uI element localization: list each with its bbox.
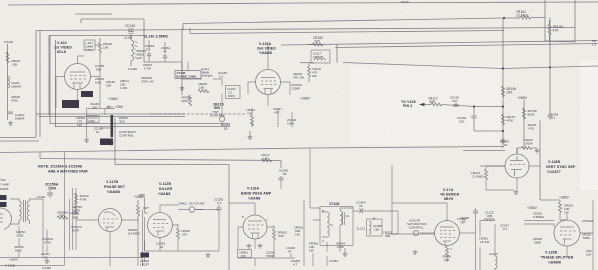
tube V112B	[148, 213, 173, 238]
junction	[502, 67, 504, 69]
wire: mid bus pair y113-116	[36, 114, 185, 117]
tube V117A demod	[435, 221, 460, 252]
wire: bus y44 pair upper	[281, 41, 598, 46]
capacitor 2C254A 2200	[42, 237, 54, 245]
label V-117B PHASE DET	[104, 180, 126, 194]
tube V117B	[99, 209, 122, 232]
label V-104 1st VIDEO 6CL6	[54, 41, 72, 54]
inductor 2L123 vertical	[489, 252, 498, 269]
resistor 2R120 10K	[99, 38, 113, 58]
ground	[8, 121, 13, 126]
resistor 1R306 75K vertical	[74, 203, 77, 214]
paper grain overlay	[0, 0, 1, 1]
resistor 1R303 47K dark	[100, 139, 115, 146]
label V-118B VERT SYNC SEP	[546, 160, 576, 174]
capacitor 1C362 72	[457, 217, 466, 225]
inductor 4L101 180MH	[8, 76, 21, 89]
wire: 1T108 area connections	[304, 148, 398, 266]
resistor 2R305 6800	[15, 245, 24, 253]
resistor 1R117 82K	[428, 97, 503, 107]
ground	[343, 252, 348, 257]
capacitor 2C218 1000	[287, 118, 296, 126]
resistor 2R206A 2700	[141, 76, 154, 84]
resistor 1R304 500	[119, 116, 128, 124]
resistor 2R306 5.6 MEG	[128, 228, 141, 236]
resistor 2R325 550K	[533, 237, 542, 245]
wire: long bus y158	[40, 159, 281, 169]
capacitor 1C255 .01	[156, 242, 165, 250]
capacitor 3C184 330	[90, 102, 99, 110]
wire: top bus line full width	[8, 2, 598, 5]
resistor 3R320 560K	[582, 233, 591, 241]
capacitor 2C262	[286, 246, 295, 254]
label fragment right edge	[592, 39, 597, 47]
wire: vertical x550	[549, 18, 551, 113]
capacitor 1C363	[329, 259, 338, 263]
resistor 1R212 720	[246, 108, 255, 126]
wire: second bus from x183	[183, 18, 504, 24]
inductor 2L121	[357, 217, 383, 236]
capacitor 2C261 50MF	[266, 251, 275, 259]
junction	[473, 105, 475, 107]
capacitor right edge	[473, 208, 478, 216]
wire: vertical x545	[544, 0, 546, 41]
resistor 2R163 15K	[6, 52, 20, 67]
junction	[503, 17, 505, 19]
box killer section	[115, 118, 229, 270]
wire: left bus pair y137-141	[0, 138, 39, 142]
resistor 2R369 100	[442, 246, 451, 262]
capacitor 2C257 .01	[41, 252, 50, 260]
junction	[502, 130, 504, 132]
resistor 2R207 3500	[137, 49, 146, 60]
inductor 2L111 36MH	[201, 67, 212, 77]
wire: killer connections	[145, 197, 220, 251]
resistor 2R302 170	[76, 116, 85, 127]
resistor 1R510 27K	[177, 228, 191, 239]
resistor 2R101 10K 10W	[120, 79, 129, 90]
capacitor 2C150 .047	[450, 96, 459, 107]
tube V115A	[256, 70, 281, 95]
tube V118B vert sync	[505, 154, 529, 178]
wire: tube V104 connections	[56, 45, 100, 108]
inductor L107 box	[84, 40, 95, 52]
capacitor 2C255 0.1	[214, 198, 223, 213]
capacitor 3C194 .01	[500, 138, 509, 147]
resistor 2R169 4700	[11, 95, 20, 103]
inductor 4L105 dark box	[81, 91, 93, 97]
wire: vertical x540 mid	[539, 121, 541, 201]
label V-115B PHASE SPLITTER	[540, 251, 574, 265]
resistor 1R211 560	[517, 138, 539, 154]
wire: vert sync connections	[480, 148, 593, 270]
resistor 1R381	[479, 237, 489, 245]
wire: coil row y62 left stub	[300, 62, 314, 64]
resistor 2R515	[294, 226, 303, 237]
capacitor 2C164 33	[161, 46, 170, 60]
wire: vertical x337	[336, 44, 338, 62]
potentiometer contrast thick bar	[111, 115, 114, 137]
label TO V108 PIN 3 with arrow	[401, 100, 431, 108]
wire: contrast connections	[87, 109, 115, 147]
resistor 1R152 220	[308, 36, 323, 46]
resistor 2R324 10K 1W	[559, 202, 574, 215]
wire: bus y46 pair lower	[335, 44, 598, 48]
resistor 1C211 2.2	[226, 86, 241, 99]
ground	[206, 253, 211, 258]
wire: mid bus pair y123-127	[50, 124, 230, 127]
wire: vertical x50 x55	[50, 36, 56, 127]
wire: short segment above V104 box	[75, 13, 112, 15]
resistor 2R221 47K	[528, 123, 537, 131]
label 2C263	[291, 259, 300, 267]
resistor 1R115 47K 2W	[308, 63, 322, 82]
potentiometer 2R316 1500 AFC BAL	[73, 205, 82, 220]
wire: V115A plate to bus	[248, 45, 290, 106]
tube V115B phase splitter	[554, 220, 580, 246]
wire: vertical drop at 190	[189, 28, 191, 34]
resistor 2R750 820K	[523, 108, 537, 119]
label CONTRAST CONTROL	[119, 130, 136, 138]
ground	[45, 259, 50, 264]
terminal dark boxes left edge	[0, 195, 7, 207]
junction	[549, 66, 551, 68]
wire: demod connections	[392, 165, 476, 270]
tube V104	[65, 64, 91, 90]
resistor 1R501 150	[238, 250, 252, 259]
capacitor 2C327 0.1	[500, 224, 509, 232]
potentiometer 2R401	[178, 202, 205, 213]
tube V116B partial left edge	[0, 208, 11, 229]
capacitor 2C182	[94, 127, 103, 135]
node +265V arrow	[107, 105, 123, 109]
capacitor 2C195 0.1	[547, 112, 558, 120]
terminal cluster bottom left of killer	[140, 241, 149, 267]
transformer 1T108	[320, 202, 353, 246]
capacitor 1C188	[128, 67, 137, 71]
wire: vertical drop at 183	[182, 24, 184, 31]
junction	[502, 105, 504, 107]
inductor 2L140 3.58MC	[144, 35, 169, 39]
capacitor 2C140 3.0	[125, 24, 135, 33]
resistor 1R371 500	[383, 231, 392, 239]
capacitor 2C364 33	[353, 201, 398, 214]
ground	[413, 250, 418, 255]
inductor 2L117 180MH boxed	[311, 50, 330, 63]
resistor 1R161 12 MEG	[504, 10, 545, 19]
note text matched pair	[38, 165, 88, 174]
wire: bandpass connections	[229, 183, 295, 266]
resistor 2R207 2.7M	[143, 63, 152, 71]
box 3.58MC section vertical x144	[144, 29, 182, 96]
capacitor C181A 500MF	[8, 112, 25, 121]
inductor 2L106 dark box	[62, 100, 79, 108]
capacitor 2C213	[221, 123, 230, 131]
resistor 2R116 47K 1W	[293, 72, 304, 80]
wire: bus y33 from 190	[190, 31, 504, 34]
resistor 2R209 2200	[181, 95, 192, 106]
wire: y131 link	[474, 130, 503, 132]
resistor 2R306A 75K	[57, 211, 69, 220]
resistor 2R209 180	[198, 82, 209, 93]
ground at 250	[248, 131, 253, 140]
wire: osc section connections	[149, 40, 292, 127]
capacitor 2C185 820	[95, 64, 104, 72]
inner box V-104	[49, 36, 144, 116]
resistor 2R505 56K	[273, 229, 287, 240]
wire: right box vertical x575	[574, 0, 576, 43]
capacitor 2C169 5.0	[145, 44, 154, 58]
resistor 2R126 10K	[106, 80, 115, 88]
wire: bottom-left verticals	[0, 152, 143, 266]
resistor 1R322 6.8 MEG	[533, 212, 545, 220]
resistor 1R213 2.2 MEG	[471, 166, 518, 195]
capacitor 2C303 1200 boxed	[87, 116, 99, 124]
wire: y150 stub	[463, 150, 505, 152]
resistor 1R342 15K top	[261, 153, 272, 162]
inductor 2L122 .005	[484, 211, 494, 221]
capacitor 2C151A 22MF	[291, 83, 303, 91]
resistor 1R146 22K	[502, 86, 517, 97]
wire: long bus y30	[36, 28, 575, 31]
resistor 2R175 470K	[502, 114, 516, 125]
node +265V right	[517, 96, 528, 148]
resistor 2R366	[309, 242, 318, 253]
label V-116A partial left edge	[0, 178, 9, 191]
resistor 2R312 47K	[137, 200, 149, 224]
potentiometer COLOR SATURATION CONTROL	[407, 219, 426, 236]
node TP107b HOR	[71, 225, 82, 233]
wire: vertical x40 stub	[39, 152, 41, 159]
capacitor 2C260 .05	[278, 169, 288, 183]
wire: vertical x503	[502, 18, 504, 148]
ground	[84, 138, 89, 143]
wire: long bus y152	[0, 147, 503, 153]
capacitor 4C186	[460, 216, 469, 224]
resistor cluster 2R124 6.8K	[95, 77, 104, 85]
resistor 2R364 2700	[336, 242, 345, 250]
resistor 2R326 partial	[586, 249, 592, 257]
ground	[180, 86, 185, 91]
capacitor 2C217 470	[273, 107, 282, 115]
label V-115A 2nd VIDEO	[257, 42, 276, 55]
label V-117A DEMOD	[440, 188, 460, 201]
potentiometer 1R210 500 TINT CONTROL	[210, 103, 225, 122]
capacitor 2C256A 1500	[45, 183, 59, 198]
top-left section outline box	[36, 19, 144, 137]
resistor 2R145 47K	[548, 20, 563, 41]
label V-116A BAND PASS AMP	[241, 187, 272, 201]
capacitor 1C252 2200	[16, 230, 25, 238]
capacitor 2C130 510	[457, 107, 477, 132]
transformer 2T106 3.58MC boxed	[175, 71, 201, 79]
tube V116A	[242, 215, 268, 248]
wire: dash shield line	[150, 113, 245, 115]
transformer 2L161	[124, 34, 138, 66]
transformer 1T104	[10, 195, 46, 224]
node T103	[4, 40, 13, 120]
capacitor 2C165	[218, 71, 227, 79]
wire: y68 line right half	[343, 63, 598, 69]
wire: box bottom	[545, 41, 575, 42]
label V-112B KILLER	[158, 182, 173, 196]
resistor 2R310 470K	[75, 193, 89, 204]
